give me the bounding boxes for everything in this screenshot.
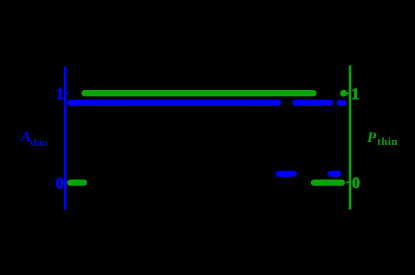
svg-text:thin: thin [377,137,398,148]
svg-text:P: P [367,130,377,146]
svg-text:1: 1 [351,86,359,103]
svg-text:1: 1 [56,86,64,103]
svg-text:0: 0 [352,175,360,192]
svg-text:thin: thin [30,138,48,149]
svg-text:0: 0 [56,175,64,192]
